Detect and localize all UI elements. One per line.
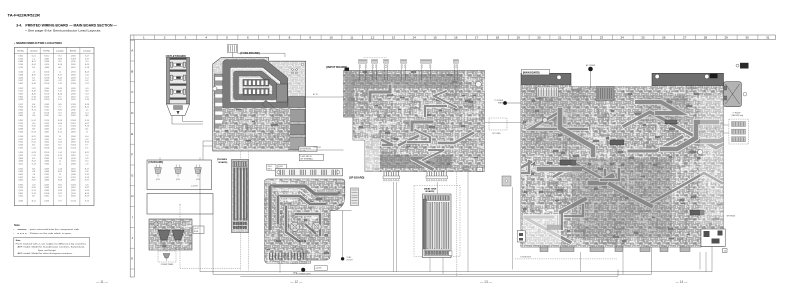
svg-text:D510: D510 — [45, 120, 50, 122]
svg-text:Q603: Q603 — [71, 131, 76, 133]
svg-text:IC513: IC513 — [71, 201, 76, 203]
input board bottom pin groups — [383, 172, 385, 177]
svg-text:IC508: IC508 — [71, 120, 76, 122]
svg-text:C-2: C-2 — [85, 155, 88, 157]
svg-text:D102: D102 — [71, 67, 76, 69]
svg-text:Q602: Q602 — [44, 58, 49, 60]
svg-text:IC505: IC505 — [44, 152, 49, 154]
phones board drop wires — [239, 233, 241, 271]
svg-text:D-25: D-25 — [58, 147, 62, 149]
svg-text:D202: D202 — [18, 88, 23, 90]
svg-text:B-24: B-24 — [85, 64, 89, 66]
svg-text:29: 29 — [725, 36, 729, 40]
svg-text:A-10: A-10 — [85, 192, 89, 195]
svg-text:31: 31 — [766, 36, 770, 40]
svg-text:11: 11 — [350, 36, 353, 40]
svg-text:Y─F522R: Y─F522R — [733, 113, 742, 115]
harness line 3 — [240, 270, 618, 277]
svg-text:(FUSE): (FUSE) — [300, 150, 306, 152]
svg-text:C-5: C-5 — [58, 126, 61, 128]
svg-text:D104: D104 — [18, 136, 23, 138]
harness dashed upper — [515, 258, 617, 260]
svg-text:D503: D503 — [18, 171, 23, 173]
svg-text:Q602: Q602 — [71, 139, 76, 141]
svg-text:G-5: G-5 — [32, 80, 35, 82]
svg-text:E-28: E-28 — [85, 104, 89, 106]
svg-text:D302: D302 — [18, 56, 23, 58]
svg-text:C-16: C-16 — [58, 168, 62, 170]
svg-text:Q104: Q104 — [18, 77, 23, 79]
svg-text:IC201: IC201 — [44, 75, 49, 77]
fuse board top connector — [228, 45, 238, 53]
svg-text:J-28: J-28 — [85, 99, 89, 101]
svg-text:F-20: F-20 — [32, 180, 36, 182]
svg-text:H-2: H-2 — [32, 145, 35, 147]
svg-text:△4-97: △4-97 — [194, 227, 199, 230]
svg-text:Ref No.: Ref No. — [17, 51, 24, 53]
svg-text:25: 25 — [641, 36, 645, 40]
svg-text:D501: D501 — [18, 196, 23, 198]
svg-text:H-23: H-23 — [32, 131, 36, 133]
svg-text:IC303: IC303 — [44, 77, 49, 79]
svg-text:Q608: Q608 — [18, 128, 23, 130]
svg-text:Q604: Q604 — [44, 161, 49, 163]
regulator board — [149, 219, 192, 250]
svg-text:D508: D508 — [45, 61, 50, 63]
svg-text:26: 26 — [662, 36, 666, 40]
svg-text:Q606: Q606 — [44, 171, 49, 173]
svg-text:A-7: A-7 — [59, 66, 62, 69]
left ruler band — [129, 35, 131, 277]
svg-text:D603: D603 — [45, 158, 50, 160]
svg-text:A-13: A-13 — [85, 71, 89, 74]
svg-text:Q101: Q101 — [71, 168, 76, 170]
svg-text:Q554: Q554 — [71, 107, 76, 109]
svg-text:Q606: Q606 — [18, 161, 23, 163]
svg-text:— 14 —: — 14 — — [675, 280, 688, 284]
svg-text:F-7: F-7 — [86, 145, 89, 147]
svg-text:IC603: IC603 — [44, 147, 49, 149]
svg-text:3-4.: 3-4. — [16, 23, 22, 27]
svg-text:: Pattern on the side which is: : Pattern on the side which is open. — [28, 232, 72, 235]
svg-text:[SP BOARD]: [SP BOARD] — [349, 177, 364, 180]
svg-text:Q505: Q505 — [71, 80, 76, 82]
svg-text:B-11: B-11 — [32, 201, 36, 203]
svg-text:F-20: F-20 — [32, 126, 36, 128]
sp pad crosses — [292, 224, 298, 230]
svg-text:E-27: E-27 — [85, 187, 89, 189]
input board hole pad — [476, 81, 482, 87]
svg-text:Q302: Q302 — [71, 190, 76, 192]
svg-text:Q605: Q605 — [18, 180, 23, 182]
svg-text:E-7: E-7 — [59, 96, 62, 98]
svg-text:D105: D105 — [18, 123, 23, 125]
svg-text:E-17: E-17 — [85, 180, 89, 182]
svg-text:D102: D102 — [18, 142, 23, 144]
fuse board outline — [213, 57, 306, 151]
svg-text:E-23: E-23 — [85, 142, 89, 144]
svg-text:D604: D604 — [18, 110, 23, 112]
svg-text:A-5: A-5 — [32, 176, 35, 179]
svg-text:[HEAT SINK: [HEAT SINK — [424, 187, 437, 190]
svg-text:Q304: Q304 — [71, 93, 76, 95]
sp board ref label box — [299, 154, 323, 161]
svg-text:D504: D504 — [71, 161, 76, 163]
svg-text:E-2: E-2 — [85, 80, 88, 82]
svg-text:E-23: E-23 — [32, 161, 36, 163]
fuse board maze traces — [227, 64, 285, 133]
fuse board pads — [213, 87, 217, 91]
svg-text:D552: D552 — [71, 155, 76, 157]
svg-text:IC101: IC101 — [71, 152, 76, 154]
svg-text:Q701: Q701 — [156, 179, 160, 181]
svg-text:D202: D202 — [45, 174, 50, 176]
cn board — [147, 160, 212, 190]
svg-text:14: 14 — [413, 36, 417, 40]
svg-text:H-12: H-12 — [32, 142, 36, 144]
svg-text:A: A — [131, 49, 133, 53]
svg-text:H-4: H-4 — [58, 56, 61, 58]
svg-text:G-19: G-19 — [85, 190, 89, 192]
svg-text:B-14: B-14 — [32, 64, 36, 66]
svg-text:IC506: IC506 — [71, 83, 76, 85]
input board callout leader lines — [359, 71, 361, 80]
svg-text:K-3: K-3 — [85, 96, 88, 98]
svg-text:— 12 —: — 12 — — [290, 280, 303, 284]
svg-text:E-16: E-16 — [58, 64, 62, 66]
svg-text:Q105: Q105 — [44, 184, 49, 186]
svg-text:H-14: H-14 — [32, 120, 36, 122]
svg-text:H-11: H-11 — [58, 184, 62, 186]
svg-text:IC503: IC503 — [71, 145, 76, 147]
svg-text:D302: D302 — [18, 120, 23, 122]
note box — [14, 237, 90, 256]
svg-text:Q604: Q604 — [44, 67, 49, 69]
svg-text:: parts extracted from the com: : parts extracted from the component sid… — [28, 228, 80, 231]
svg-text:I-14: I-14 — [58, 152, 61, 154]
svg-text:K-26: K-26 — [32, 187, 36, 189]
wires fuse to input board — [306, 96, 344, 98]
svg-text:IC507: IC507 — [71, 123, 76, 125]
svg-text:D608: D608 — [18, 61, 23, 63]
heat sink board — [423, 194, 452, 258]
svg-text:[PHONES: [PHONES — [217, 159, 228, 161]
svg-text:B-21: B-21 — [85, 152, 89, 154]
svg-text:IC601: IC601 — [44, 96, 49, 98]
svg-text:Location: Location — [83, 50, 91, 53]
svg-text:D510: D510 — [18, 126, 23, 128]
phones board bottom pads — [233, 222, 235, 225]
svg-text:Q501: Q501 — [44, 177, 49, 179]
svg-text:I: I — [132, 215, 133, 219]
svg-text:G-21: G-21 — [32, 56, 36, 58]
svg-text:E-18: E-18 — [32, 83, 36, 85]
svg-text:[MAIN BOARD]: [MAIN BOARD] — [523, 72, 540, 75]
main board discrete components — [523, 87, 724, 246]
svg-text:G-3: G-3 — [85, 93, 88, 95]
svg-text:D504: D504 — [18, 107, 23, 109]
svg-text:[CN BOARD]: [CN BOARD] — [149, 161, 164, 164]
svg-text:J-19: J-19 — [32, 88, 36, 90]
svg-text:D-2: D-2 — [32, 77, 35, 79]
svg-text:F-3: F-3 — [59, 201, 62, 203]
svg-text:K-10: K-10 — [85, 120, 89, 122]
svg-text:Q504: Q504 — [44, 88, 49, 90]
svg-text:Q601: Q601 — [71, 180, 76, 182]
fuse board right relays — [289, 97, 306, 108]
svg-text:D603: D603 — [18, 115, 23, 117]
svg-text:G-13: G-13 — [32, 190, 36, 192]
svg-text:Q514: Q514 — [71, 193, 76, 195]
svg-text:D602: D602 — [18, 96, 23, 98]
svg-text:Q101: Q101 — [44, 139, 49, 141]
svg-text:I-2: I-2 — [59, 174, 61, 176]
svg-text:AEP model: Model for other Eur: AEP model: Model for other European coun… — [18, 252, 74, 255]
svg-text:Q553: Q553 — [71, 72, 76, 74]
input board thick traces — [353, 86, 473, 172]
small transistor with dashed box — [158, 251, 176, 262]
svg-text:F-24: F-24 — [85, 201, 89, 203]
svg-text:IC105: IC105 — [71, 104, 76, 106]
svg-text:J-1: J-1 — [59, 163, 62, 165]
fuse board ref label box — [299, 146, 317, 151]
svg-text:IC201: IC201 — [44, 112, 49, 114]
left dashed wires — [180, 268, 240, 270]
harness verticals — [393, 182, 395, 272]
svg-text:B-19: B-19 — [85, 196, 89, 198]
svg-text:POWER TRANS: POWER TRANS — [161, 263, 174, 266]
svg-text:Q513: Q513 — [71, 158, 76, 160]
svg-text:I-22: I-22 — [85, 158, 88, 160]
svg-text:B-26: B-26 — [58, 120, 62, 122]
svg-text:17: 17 — [475, 36, 479, 40]
svg-text:16: 16 — [454, 36, 458, 40]
svg-text:R901: R901 — [268, 168, 272, 170]
svg-text:IC506: IC506 — [71, 126, 76, 128]
svg-text:TA-F422R/F522R: TA-F422R/F522R — [8, 14, 41, 18]
svg-text:B-9: B-9 — [85, 91, 88, 93]
svg-text:Q501: Q501 — [44, 91, 49, 93]
heat sink dashed enclosure — [414, 186, 460, 257]
fuse board left strip — [214, 74, 224, 137]
svg-text:F-2: F-2 — [86, 147, 89, 149]
svg-text:D554: D554 — [45, 123, 50, 125]
svg-text:D514: D514 — [18, 152, 23, 154]
phones board top connector — [233, 162, 247, 167]
sp board ground dot — [301, 268, 305, 272]
svg-text:Ref No.: Ref No. — [43, 51, 50, 53]
wire cn cluster down — [166, 250, 168, 251]
svg-text:H-11: H-11 — [32, 110, 36, 112]
sp board round pads — [290, 222, 299, 231]
table frame — [14, 47, 94, 205]
cn board top stubs — [159, 158, 161, 161]
svg-text:E-21: E-21 — [32, 136, 36, 138]
svg-text:• See page 8 for Semiconductor: • See page 8 for Semiconductor Lead Layo… — [25, 29, 101, 33]
svg-text:B-5: B-5 — [59, 61, 62, 63]
svg-text:I-25: I-25 — [58, 80, 61, 82]
svg-text:G-7: G-7 — [85, 61, 88, 63]
svg-text:J-10: J-10 — [85, 75, 89, 77]
svg-text:22: 22 — [579, 36, 583, 40]
input board corner tag — [345, 68, 350, 71]
svg-text:D-3: D-3 — [32, 67, 35, 69]
svg-text:AC POWER: AC POWER — [586, 64, 596, 67]
svg-text:12: 12 — [371, 36, 375, 40]
svg-text:Q604: Q604 — [71, 112, 76, 114]
svg-text:B-7: B-7 — [32, 196, 35, 198]
sp board outline — [265, 179, 345, 264]
svg-text:Q104: Q104 — [44, 155, 49, 157]
svg-text:IC504: IC504 — [71, 184, 76, 186]
sp board right dot — [341, 257, 344, 260]
svg-text:A-26: A-26 — [58, 92, 62, 95]
svg-text:J-5: J-5 — [86, 110, 89, 112]
svg-text:I-27: I-27 — [85, 139, 88, 141]
svg-text:Q603: Q603 — [71, 142, 76, 144]
svg-text:J-26: J-26 — [58, 83, 62, 85]
main board thick trace overlay — [511, 102, 745, 242]
appendage dashed box — [729, 119, 749, 144]
svg-text:K-12: K-12 — [58, 131, 62, 133]
svg-text:D-27: D-27 — [58, 193, 62, 195]
input board callout row — [364, 57, 387, 59]
small relay box left of heat sink — [351, 188, 359, 206]
svg-text:IC514: IC514 — [71, 147, 76, 149]
svg-text:[INPUT BOARD]: [INPUT BOARD] — [326, 66, 347, 69]
svg-text:15: 15 — [433, 36, 437, 40]
svg-text:Spain, and Portugal.: Spain, and Portugal. — [38, 249, 57, 252]
svg-text:H-17: H-17 — [85, 123, 89, 125]
svg-text:D604: D604 — [71, 75, 76, 77]
svg-text:H-6: H-6 — [58, 115, 61, 117]
svg-text:NOT USED: NOT USED — [492, 133, 501, 135]
svg-text:Note:: Note: — [14, 224, 20, 227]
top ruler band — [130, 34, 775, 36]
svg-text:F: F — [131, 153, 133, 157]
svg-text:I-20: I-20 — [32, 184, 35, 186]
svg-text:Q303: Q303 — [44, 126, 49, 128]
svg-text:G-17: G-17 — [85, 58, 89, 60]
main board top-right small comp — [736, 64, 739, 67]
svg-text:F-13: F-13 — [85, 177, 89, 179]
svg-text:B-8: B-8 — [59, 104, 62, 106]
svg-text:Note:: Note: — [16, 239, 22, 242]
svg-text:C-9: C-9 — [85, 163, 88, 165]
svg-text:A-20: A-20 — [32, 92, 36, 95]
svg-text:Parts marked with △ are subjec: Parts marked with △ are subject to diffe… — [16, 242, 88, 245]
svg-text:D-4: D-4 — [85, 112, 88, 114]
svg-text:F-15: F-15 — [58, 155, 62, 157]
svg-text:Q302: Q302 — [44, 128, 49, 130]
svg-text:G-22: G-22 — [32, 139, 36, 141]
svg-text:H-4: H-4 — [85, 136, 88, 138]
svg-text:D101: D101 — [45, 110, 50, 112]
svg-text:Q102: Q102 — [44, 145, 49, 147]
svg-text:J-3: J-3 — [32, 112, 35, 114]
svg-text:IC503: IC503 — [44, 83, 49, 85]
small comp left of main board — [502, 176, 511, 186]
fuse board fuse blocks — [243, 80, 269, 87]
svg-text:D503: D503 — [71, 196, 76, 198]
svg-text:I-7: I-7 — [86, 131, 88, 133]
svg-text:D607: D607 — [18, 93, 23, 95]
svg-text:13: 13 — [392, 36, 396, 40]
svg-text:E-2: E-2 — [85, 161, 88, 163]
svg-text:Q509: Q509 — [18, 99, 23, 101]
svg-text:D506: D506 — [18, 131, 23, 133]
svg-text:A-1: A-1 — [85, 127, 88, 130]
svg-text:I-5: I-5 — [59, 136, 61, 138]
svg-text:IC101: IC101 — [71, 177, 76, 179]
svg-text:G-28: G-28 — [32, 152, 36, 154]
svg-text:18: 18 — [496, 36, 500, 40]
svg-text:C-27: C-27 — [85, 83, 89, 85]
outlet board leads and wires — [171, 116, 173, 125]
svg-text:Q507: Q507 — [18, 112, 23, 114]
svg-text:— 13 —: — 13 — — [480, 280, 493, 284]
svg-text:G-5: G-5 — [85, 88, 88, 90]
svg-text:21: 21 — [558, 36, 562, 40]
transformer box — [147, 194, 213, 215]
svg-text:D-12: D-12 — [85, 174, 89, 176]
svg-text:30: 30 — [745, 36, 749, 40]
svg-text:Q514: Q514 — [18, 190, 23, 192]
svg-text:D608: D608 — [18, 75, 23, 77]
main board label — [522, 69, 550, 75]
svg-text:Q703: Q703 — [196, 179, 200, 181]
sp board drop wire — [279, 264, 281, 273]
svg-text:E-5: E-5 — [32, 158, 35, 160]
svg-text:J-15: J-15 — [58, 128, 62, 130]
svg-text:E-12: E-12 — [85, 168, 89, 170]
wire from fuse connector to right — [238, 52, 286, 54]
wires fuse board left side — [203, 140, 213, 142]
svg-text:Q606: Q606 — [18, 158, 23, 160]
phones board — [232, 160, 249, 233]
svg-text:D-27: D-27 — [58, 142, 62, 144]
input board outline — [344, 71, 485, 172]
svg-text:I-25: I-25 — [85, 184, 88, 186]
svg-text:I-4: I-4 — [33, 58, 35, 60]
svg-text:27: 27 — [683, 36, 687, 40]
svg-text:E-17: E-17 — [58, 75, 62, 77]
svg-text:BOARD]: BOARD] — [426, 190, 435, 193]
svg-text:IC302: IC302 — [44, 72, 49, 74]
svg-text:Q104: Q104 — [18, 72, 23, 74]
svg-text:Q702: Q702 — [176, 179, 180, 181]
svg-text:IC606: IC606 — [44, 193, 49, 195]
svg-text:Q504: Q504 — [71, 136, 76, 138]
svg-text:Q606: Q606 — [44, 136, 49, 138]
svg-text:Q505: Q505 — [71, 88, 76, 90]
sp board bold traces — [270, 186, 338, 242]
outlet board bottom trapezoid — [167, 104, 190, 116]
svg-text:I-16: I-16 — [58, 91, 61, 93]
svg-text:Q510: Q510 — [71, 61, 76, 63]
svg-text:C-24: C-24 — [32, 147, 36, 149]
svg-text:Q507: Q507 — [18, 139, 23, 141]
svg-text:Q201: Q201 — [18, 155, 23, 157]
svg-text:20: 20 — [537, 36, 541, 40]
svg-text:IC553: IC553 — [44, 99, 49, 101]
sp board bottom-right ref box — [314, 266, 327, 271]
svg-text:6-541: 6-541 — [194, 231, 198, 233]
svg-text:Q510: Q510 — [44, 64, 49, 66]
svg-text:— 11 —: — 11 — — [96, 280, 109, 284]
svg-text:A-19: A-19 — [32, 74, 36, 77]
svg-text:Ref No.: Ref No. — [70, 51, 77, 53]
